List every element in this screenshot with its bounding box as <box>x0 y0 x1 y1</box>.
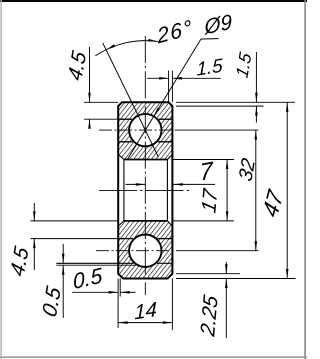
dim 0.5 (face recess): dimension line + arrows <box>72 291 136 294</box>
dim 32: dimension line + arrows <box>255 130 258 251</box>
dim 2.25: dimension line + arrows <box>225 262 228 338</box>
vertical centreline <box>144 36 146 295</box>
dim 1.5 (top chamfer): dimension line + arrows <box>147 77 221 80</box>
dim 47: dimension line + arrows <box>286 102 289 278</box>
inner ring shoulder line (bottom) <box>118 238 172 240</box>
26 deg slant line through top ball centre <box>103 43 159 157</box>
dim 7: dimension line + arrows <box>126 183 216 186</box>
bore chamfer slants <box>118 154 172 226</box>
dim 1.5 (right chamfer): extension line <box>176 105 264 107</box>
dim 4.5 (top-left): dimension line + arrows <box>88 47 91 129</box>
svg-text:14: 14 <box>134 298 157 324</box>
dim 14: dimension line + arrows <box>118 321 172 324</box>
bearing outline with chamfered corners <box>118 102 172 278</box>
dim 17: dimension line + arrows <box>226 160 229 221</box>
dim 1.5 (right chamfer): dimension line + arrows <box>255 52 258 123</box>
ball (bottom) <box>129 235 161 267</box>
svg-text:2.25: 2.25 <box>196 293 222 339</box>
svg-text:7: 7 <box>199 157 215 187</box>
dim 2.25: extension line (bottom chamfer) <box>176 273 240 275</box>
bore chamfer edge verticals <box>124 160 167 221</box>
dim 17: extension lines <box>172 160 234 221</box>
0.5 recess line (bottom outer shoulder) <box>56 264 136 266</box>
dim 47: extension lines <box>176 102 296 278</box>
ball (top) <box>129 114 161 146</box>
outer ring shoulder line (bottom), extended left for 0.5 dim <box>56 262 172 264</box>
dim 4.5 (bottom-left): dimension line + arrows <box>33 203 36 270</box>
D9 leader line through ball <box>127 39 218 160</box>
inner ring shoulder line (top) <box>118 141 172 143</box>
bottom ball centreline / extension for 32 <box>96 250 259 252</box>
svg-text:1.5: 1.5 <box>196 56 223 81</box>
26 deg dimension arc with arrows <box>95 39 158 56</box>
outer+inner ring section (top), hatched <box>118 102 172 159</box>
outer+inner ring section (bottom), hatched <box>118 221 172 279</box>
top ball centreline / extension for 32 <box>99 129 259 131</box>
D9 leader arrowhead <box>154 108 160 117</box>
dim 1.5 (top chamfer): extension lines <box>169 71 173 103</box>
outer ring shoulder line (top) <box>118 118 172 120</box>
horizontal axis centreline <box>99 189 192 191</box>
dim 14: extension lines <box>118 279 172 331</box>
dim 4.5 (top-left): extension lines <box>84 102 118 119</box>
bore surface lines <box>124 160 167 221</box>
dim 0.5 (face recess): extension line <box>119 279 121 297</box>
dim 0.5 (shoulder recess): dimension line + arrows <box>62 244 65 318</box>
dim 4.5 (bottom-left): extension lines <box>31 221 119 239</box>
